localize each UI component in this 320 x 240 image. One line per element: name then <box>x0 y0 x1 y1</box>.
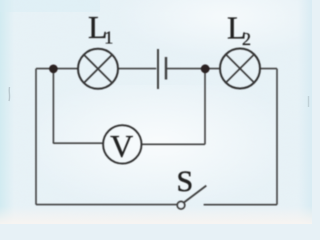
wire: left vertical side <box>35 69 37 205</box>
lamp L2 cross <box>226 54 254 82</box>
wire: bottom run left of switch <box>36 204 178 206</box>
wire: voltmeter branch up to node B <box>204 69 206 145</box>
wire: bottom run right of switch <box>204 204 277 206</box>
wire: lamp L1 to battery <box>118 68 156 70</box>
wire: voltmeter branch right horizontal <box>142 143 205 145</box>
wire: right vertical side <box>276 69 278 205</box>
svg-text:2: 2 <box>242 29 251 49</box>
svg-text:S: S <box>177 165 194 198</box>
wire: battery to lamp L2 (through node B) <box>167 68 220 70</box>
switch S pivot circle <box>177 202 184 209</box>
node A junction dot <box>49 65 58 74</box>
node B junction dot <box>201 64 210 73</box>
battery long plate (+) <box>157 49 159 89</box>
wire: node A down to voltmeter branch <box>52 69 54 144</box>
wire: lamp L2 to top-right corner <box>260 68 277 70</box>
svg-text:1: 1 <box>104 28 113 48</box>
wire: voltmeter branch left horizontal <box>53 142 102 144</box>
scan artifact: faint squiggle at left edge <box>8 87 11 101</box>
wire: top-left run from left corner to lamp L1 <box>36 68 78 70</box>
switch S blade <box>184 186 206 203</box>
battery short plate (-) <box>165 57 167 80</box>
lamp L1 circle <box>78 49 118 89</box>
svg-text:V: V <box>110 128 133 164</box>
lamp L1 cross <box>84 55 112 83</box>
lamp L2 circle <box>220 49 260 89</box>
voltmeter U1 circle <box>103 125 141 163</box>
scan artifact: faint streak at right edge <box>308 96 310 107</box>
